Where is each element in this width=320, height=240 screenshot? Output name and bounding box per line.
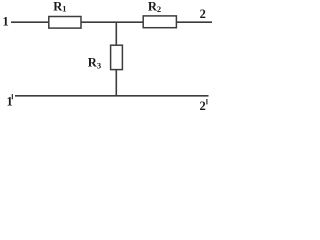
svg-text:R1: R1 <box>53 0 66 14</box>
svg-text:R2: R2 <box>148 0 161 14</box>
svg-text:2: 2 <box>200 99 206 113</box>
svg-text:1: 1 <box>3 15 9 29</box>
svg-text:2: 2 <box>200 7 206 21</box>
svg-text:R3: R3 <box>88 56 101 71</box>
